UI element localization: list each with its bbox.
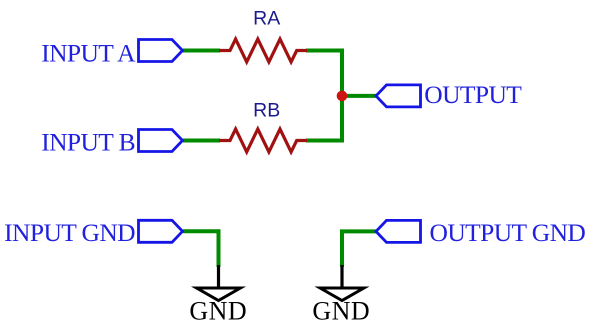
wire input A to RA bbox=[183, 49, 220, 53]
wire input B to RB bbox=[183, 139, 220, 143]
wire junction to OUTPUT port bbox=[342, 94, 377, 98]
ground symbol left bbox=[197, 265, 241, 301]
port OUTPUT GND bbox=[376, 220, 421, 242]
wire OUTPUT GND to right ground bbox=[342, 231, 377, 267]
wire INPUT GND to left ground bbox=[183, 231, 219, 267]
port INPUT A bbox=[139, 40, 183, 62]
svg-text:INPUT B: INPUT B bbox=[41, 128, 135, 157]
svg-text:GND: GND bbox=[189, 297, 247, 326]
resistor RA bbox=[219, 39, 307, 62]
wire RA to junction column bbox=[306, 49, 342, 53]
junction node bbox=[337, 91, 348, 102]
ground symbol right bbox=[320, 265, 364, 301]
resistor RB bbox=[219, 129, 307, 152]
svg-text:INPUT GND: INPUT GND bbox=[4, 218, 135, 247]
port OUTPUT bbox=[376, 85, 421, 107]
svg-text:OUTPUT GND: OUTPUT GND bbox=[430, 218, 586, 247]
svg-text:RA: RA bbox=[253, 8, 280, 30]
port INPUT B bbox=[139, 130, 183, 152]
wire RB to junction column bbox=[306, 139, 342, 143]
wire vertical junction column bbox=[340, 49, 344, 143]
svg-text:GND: GND bbox=[312, 297, 370, 326]
svg-text:INPUT A: INPUT A bbox=[41, 39, 136, 68]
svg-text:RB: RB bbox=[253, 100, 280, 122]
port INPUT GND bbox=[139, 220, 183, 242]
svg-text:OUTPUT: OUTPUT bbox=[424, 80, 522, 109]
